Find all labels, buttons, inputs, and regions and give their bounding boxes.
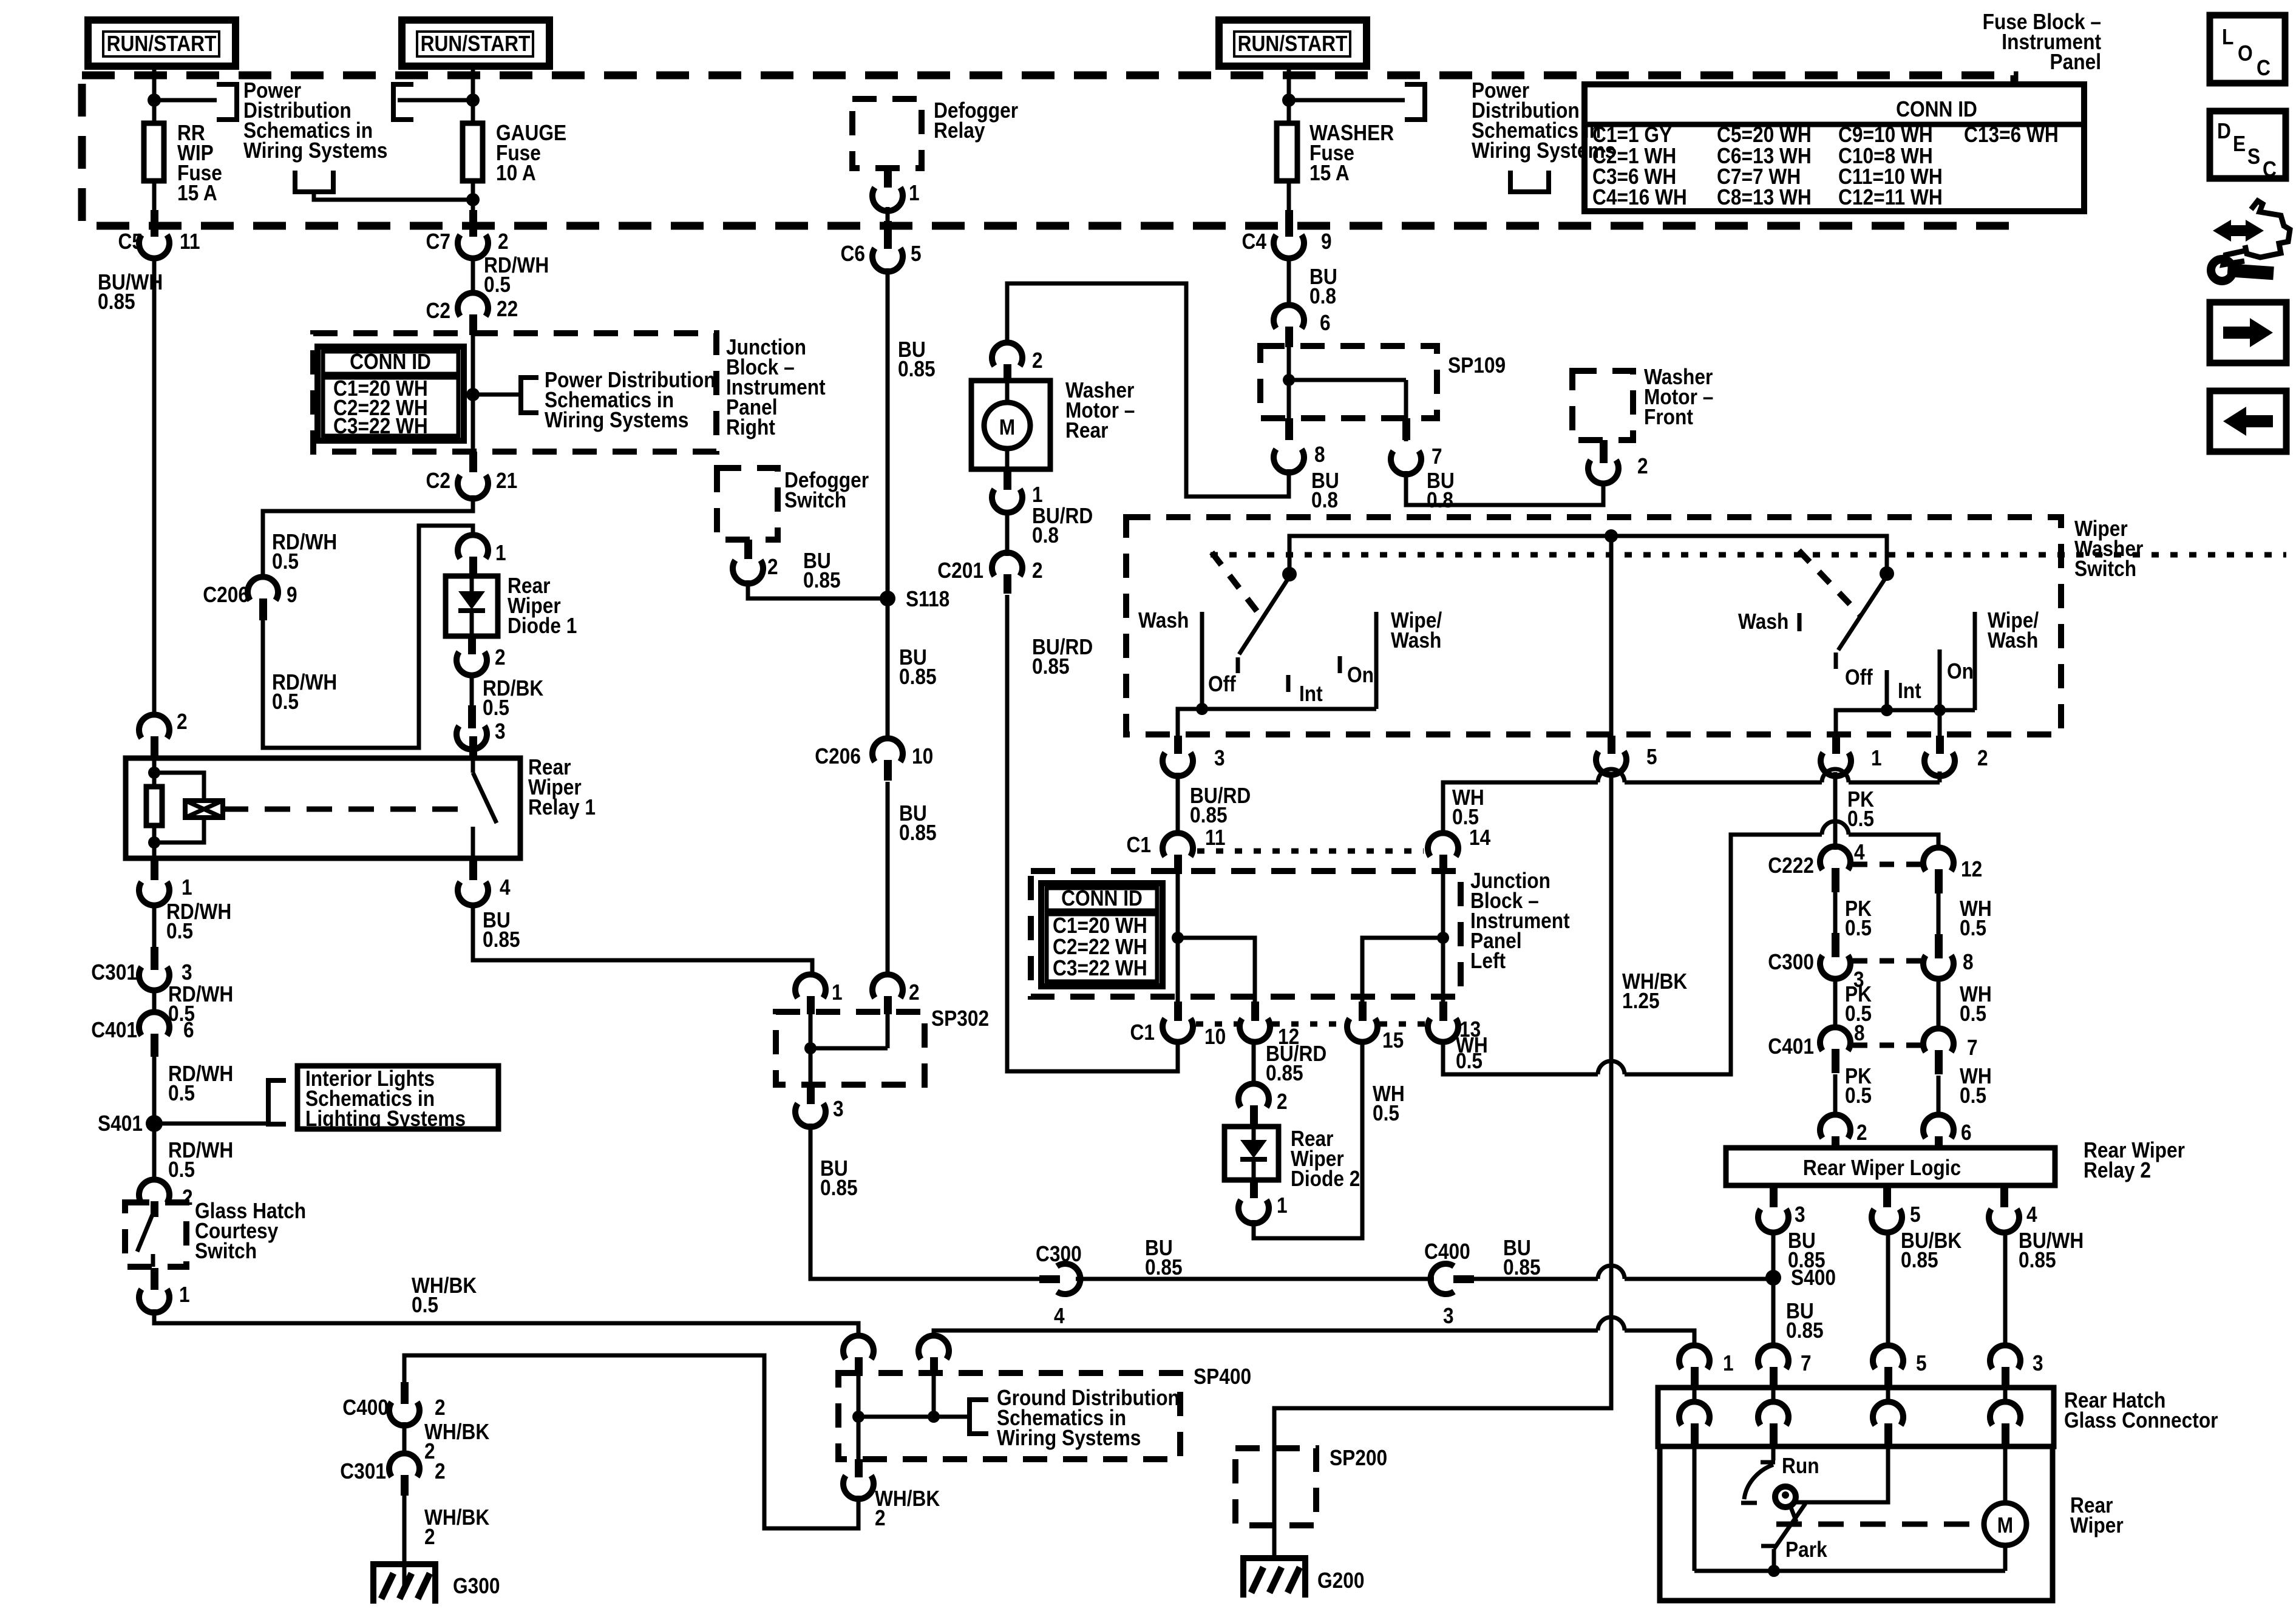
label PK 0.5 c (1845, 1063, 1872, 1108)
RUN/START box 1 (88, 20, 236, 66)
svg-text:RUN/START: RUN/START (107, 31, 217, 56)
wire WH/BK C301-2 to G300 (402, 1496, 407, 1585)
connector C222 pin 12 (1923, 847, 1982, 893)
left switch bottom wire (1178, 709, 1376, 736)
svg-text:2: 2 (1637, 453, 1648, 478)
wire BU SP302-3 to C300-4 (810, 1124, 1039, 1279)
wire to pointer bracket 1 (154, 98, 217, 103)
svg-text:C4: C4 (1242, 229, 1267, 254)
svg-text:4: 4 (1054, 1303, 1065, 1328)
wire BU/BK relay2 pin5 to glass pin 5 (1886, 1230, 1890, 1347)
label BU 0.85 below S400 (1786, 1298, 1824, 1343)
svg-text:C201: C201 (937, 558, 983, 583)
connector C1 pin 14 (1428, 833, 1458, 874)
svg-text:1: 1 (182, 875, 192, 900)
connector C401 pin 7 (1923, 1028, 1978, 1074)
svg-text:0.8: 0.8 (1032, 523, 1059, 547)
svg-text:0.5: 0.5 (1847, 806, 1874, 831)
label BU/RD 0.85 C201 (1032, 634, 1093, 679)
svg-text:Relay: Relay (934, 118, 985, 143)
svg-text:Wiring Systems: Wiring Systems (545, 407, 688, 432)
connector diode2 pin 2 (1238, 1083, 1288, 1125)
label BU 0.8 pin7 (1427, 468, 1455, 512)
svg-text:2: 2 (1032, 558, 1043, 583)
connector relay1 pin 1 (139, 858, 192, 906)
svg-text:0.8: 0.8 (1427, 487, 1453, 512)
connector washer motor front pin 2 (1588, 440, 1648, 484)
motor mechanical link dashed (1776, 1522, 1980, 1527)
svg-text:7: 7 (1801, 1351, 1812, 1375)
ground G200 (1240, 1555, 1365, 1598)
wire wiper pin7 to run switch (1771, 1446, 1776, 1460)
svg-text:5: 5 (1646, 744, 1657, 769)
svg-text:6: 6 (183, 1017, 194, 1042)
svg-text:0.85: 0.85 (1032, 654, 1070, 679)
connector C401 pin 6 (91, 1012, 194, 1057)
svg-text:C222: C222 (1768, 853, 1814, 878)
label BU 0.85 mid (1145, 1235, 1183, 1280)
connector C401 pin 8 (1768, 1020, 1864, 1073)
pointer bracket ground distribution (970, 1400, 988, 1434)
wire pin5 to pivot (1796, 1446, 1888, 1502)
svg-text:C400: C400 (342, 1395, 389, 1420)
svg-text:SP109: SP109 (1448, 353, 1506, 378)
svg-text:8: 8 (1854, 1020, 1865, 1045)
svg-text:1: 1 (495, 540, 506, 565)
connector C301 pin 2 (340, 1453, 445, 1496)
switch feed wire top (1289, 536, 1887, 574)
courtesy switch blade (137, 1204, 153, 1267)
svg-text:Relay 2: Relay 2 (2084, 1158, 2151, 1182)
label WH 0.5 pin 15 (1373, 1081, 1405, 1125)
connector SP400 output (843, 1459, 874, 1499)
label PK 0.5 switch out (1847, 787, 1874, 831)
wire RD/WH C7 to C2-22 (471, 256, 475, 296)
svg-text:2: 2 (767, 554, 778, 579)
connector relay1 pin 3 (457, 705, 506, 758)
connector SP109 pin 6 (1274, 305, 1331, 347)
wire SP200 through (1272, 1448, 1277, 1561)
svg-text:2: 2 (177, 709, 188, 734)
RUN/START box 3 (1219, 20, 1367, 66)
svg-text:Diode 2: Diode 2 (1291, 1166, 1360, 1191)
label RD/WH 0.5 relay pin1 (166, 899, 231, 943)
svg-text:8: 8 (1314, 442, 1325, 467)
svg-text:8: 8 (1963, 949, 1974, 974)
svg-text:RUN/START: RUN/START (1238, 31, 1348, 56)
svg-text:0.85: 0.85 (803, 568, 841, 592)
svg-text:22: 22 (497, 296, 518, 321)
wire bracket to gauge fuse column (314, 192, 473, 200)
svg-text:1: 1 (832, 980, 843, 1005)
svg-text:2: 2 (1032, 348, 1043, 373)
wire BU/RD switch pin3 to C1 pin 11 (1176, 773, 1180, 835)
left switch On tick (1338, 656, 1342, 673)
svg-text:0.85: 0.85 (1786, 1318, 1824, 1343)
label Junction Block Instrument Panel Left (1470, 868, 1570, 973)
label RD/WH 0.5 mid (168, 981, 233, 1026)
label WH 0.5 a (1960, 896, 1992, 940)
svg-text:C4=16 WH: C4=16 WH (1592, 185, 1687, 209)
svg-text:Right: Right (726, 415, 775, 439)
connector diode1 pin 1 (458, 535, 506, 576)
svg-text:3: 3 (1443, 1303, 1454, 1328)
svg-text:C300: C300 (1768, 949, 1814, 974)
label Wiper Washer Switch (2074, 516, 2143, 581)
label BU 0.85 to SP302 (899, 801, 937, 845)
pointer bracket 3 (1405, 84, 1425, 120)
washer motor rear (971, 381, 1050, 469)
wire relay pin1 to C6 (886, 207, 890, 225)
svg-text:On: On (1947, 659, 1974, 683)
label BU/WH 0.85 (2019, 1228, 2084, 1272)
pointer bracket interior lights (268, 1080, 286, 1124)
svg-text:7: 7 (1967, 1035, 1978, 1060)
wire RD/WH C2-21 jog to C206-9 (263, 495, 473, 578)
wire park to bottom (1772, 1549, 1776, 1571)
wire WH/BK SP400 out jog to C400-2 (404, 1355, 858, 1528)
svg-text:11: 11 (1205, 825, 1226, 850)
connector SP302 pin 1 (795, 974, 843, 1014)
svg-text:SP400: SP400 (1194, 1364, 1251, 1389)
connector C5 pin 11 (118, 210, 200, 259)
splice S118 (880, 586, 949, 611)
wire WH 0.5 jog to C1 pin 14 (1443, 782, 1940, 835)
wire RD/WH C401 to S401 (152, 1057, 157, 1182)
icon car lower outline (2223, 250, 2248, 265)
svg-text:3: 3 (495, 719, 506, 744)
connector C6 pin 5 (841, 221, 922, 272)
svg-text:15 A: 15 A (177, 180, 217, 205)
svg-text:0.85: 0.85 (820, 1175, 858, 1200)
wire WH C401-7 to relay2 pin 6 (1937, 1076, 1941, 1117)
right switch On tick (1938, 649, 1942, 710)
connector SP400 left input (843, 1335, 874, 1375)
svg-text:C300: C300 (1036, 1241, 1082, 1266)
wire BU C206-10 to SP302 pin 2 (886, 782, 890, 977)
label RD/BK 0.5 (483, 676, 543, 720)
dashed pair line C300 (1853, 958, 1921, 964)
park contact tick (1761, 1544, 1776, 1548)
wire WH diode2 pin1 to C1 pin 15 (1254, 1039, 1362, 1238)
run blade curve (1744, 1465, 1773, 1499)
fuse block dashed box (82, 75, 2014, 226)
label BU 0.85 relay out (483, 907, 520, 952)
svg-text:Park: Park (1785, 1537, 1828, 1562)
block left internal wires pin 14 side (1362, 874, 1449, 1002)
splice SP109 dashed box (1260, 346, 1437, 418)
wire C1 pin12 to diode2 (1252, 1039, 1256, 1086)
wire RD/WH relay1 pin1 down (152, 903, 157, 947)
svg-text:4: 4 (1854, 839, 1865, 864)
connector glass pin 7 (1758, 1345, 1812, 1388)
connector C301 pin 3 (91, 947, 192, 991)
wire wiper pin1 inside (1693, 1446, 1697, 1571)
glass hatch courtesy switch box (125, 1202, 186, 1267)
wire to pointer bracket 2 (398, 98, 473, 103)
label Rear Hatch Glass Connector (2064, 1388, 2218, 1432)
label WH 0.5 to pin 14 (1452, 785, 1484, 829)
label PK 0.5 b (1845, 981, 1872, 1026)
svg-text:2: 2 (1856, 1120, 1867, 1145)
relay1 coil branch (154, 773, 223, 842)
wire WH C1 pin13 jog to C222 pin 12 (1443, 835, 1938, 1074)
icon LOC box (2210, 15, 2285, 83)
wire RD/WH C301 to C401 (152, 988, 157, 1015)
svg-text:C401: C401 (1768, 1034, 1814, 1059)
connector wiper switch pin 1 (1821, 736, 1882, 776)
svg-text:S118: S118 (906, 586, 949, 611)
defogger relay pin 1 connector (872, 168, 920, 211)
junction node gauge fuse bottom (466, 193, 480, 206)
label RR WIP Fuse 15 A (177, 120, 222, 205)
connector C4 pin 9 (1242, 210, 1332, 259)
relay1 resistor branch (146, 758, 162, 858)
wire BU/WH relay2 pin4 to glass pin 3 (2003, 1230, 2008, 1347)
label WH/BK 1.25 (1622, 969, 1687, 1013)
hop WH/BK over ground column (1598, 1317, 1625, 1331)
wire BU SP109-8 to washer motor rear pin 2 (1007, 283, 1289, 497)
svg-text:C: C (2257, 55, 2271, 80)
svg-text:Panel: Panel (2050, 49, 2102, 74)
svg-text:C1: C1 (1130, 1020, 1155, 1045)
wire WH/BK 1.25 main vertical (1274, 772, 1611, 1448)
svg-text:1: 1 (1277, 1193, 1288, 1218)
svg-text:0.5: 0.5 (1960, 915, 1986, 940)
connector relay2 pin 5 (1872, 1185, 1921, 1233)
svg-text:2: 2 (424, 1439, 435, 1463)
svg-text:2: 2 (182, 1185, 193, 1210)
svg-text:2: 2 (424, 1524, 435, 1549)
svg-text:Wiring Systems: Wiring Systems (243, 138, 387, 163)
label BU 0.85 below S118 (899, 645, 937, 689)
label RD/WH 0.5 above S401 (168, 1061, 233, 1105)
wire RUN/START3 to C4 (1287, 66, 1291, 214)
label BU/BK 0.85 (1901, 1228, 1961, 1272)
svg-text:10 A: 10 A (496, 160, 536, 185)
label RD/WH 0.5 top (484, 253, 549, 297)
left switch pivot (1282, 567, 1297, 581)
connector glass pin 3 (1990, 1345, 2043, 1388)
svg-text:C301: C301 (340, 1459, 386, 1483)
svg-text:C3=22 WH: C3=22 WH (333, 413, 428, 438)
connector C206 pin 10 (815, 738, 933, 781)
label WH/BK 2 a (424, 1419, 489, 1463)
glass connector inner pin 3 (1990, 1388, 2020, 1446)
label Rear Wiper Relay 1 (528, 754, 596, 819)
svg-text:SP200: SP200 (1330, 1445, 1387, 1470)
wire BU/RD C201 to junction block pin 10 (1007, 595, 1178, 1071)
svg-text:0.5: 0.5 (412, 1292, 438, 1317)
junction node Int right (1881, 704, 1893, 716)
svg-text:C6: C6 (841, 241, 866, 266)
svg-text:Int: Int (1898, 678, 1921, 703)
fuse GAUGE (463, 123, 483, 181)
wire BU C4 to connector 6 (1287, 256, 1291, 308)
connector defogger switch pin 2 (733, 540, 778, 584)
wire WH/BK SP400 to glass pin 1 with hop (934, 1331, 1694, 1347)
junction block IP right dashed box (313, 333, 716, 452)
left switch Off tick (1236, 657, 1240, 673)
connector C2 pin 21 (426, 452, 518, 499)
left switch blade (1239, 577, 1289, 654)
svg-text:2: 2 (495, 645, 506, 670)
pointer bracket 1 (217, 84, 237, 120)
label Rear Wiper Diode 1 (508, 573, 577, 638)
svg-text:0.85: 0.85 (2019, 1247, 2056, 1272)
hop BU over ground column (1598, 1266, 1625, 1279)
pivot teardrop (1775, 1486, 1796, 1522)
svg-text:2: 2 (498, 229, 509, 254)
label WH 0.5 c (1960, 1063, 1992, 1108)
run contact tick (1761, 1460, 1775, 1465)
wire BU C300-4 to C400-3 (1076, 1277, 1434, 1281)
connector glass pin 5 (1873, 1345, 1927, 1388)
svg-text:C206: C206 (815, 744, 861, 768)
svg-text:0.85: 0.85 (1145, 1255, 1183, 1280)
svg-text:G200: G200 (1317, 1568, 1365, 1593)
right switch Wipe/Wash post (1973, 612, 1977, 710)
rear wiper motor box (1660, 1446, 2053, 1601)
right switch Int tick (1885, 670, 1889, 710)
label BU/RD 0.85 pin3 (1190, 783, 1251, 827)
label BU 0.8 pin8 (1311, 468, 1339, 512)
svg-text:0.85: 0.85 (899, 820, 937, 845)
svg-text:0.5: 0.5 (168, 1157, 195, 1182)
label Wipe/Wash left (1391, 608, 1442, 653)
svg-text:Wiper: Wiper (2070, 1513, 2124, 1537)
svg-text:CONN ID: CONN ID (350, 349, 431, 374)
connector relay2 pin 2 (1820, 1114, 1867, 1150)
svg-text:Wiring Systems: Wiring Systems (1472, 138, 1615, 163)
svg-text:12: 12 (1961, 856, 1982, 881)
wire to pointer bracket 3 (1289, 98, 1405, 103)
svg-text:M: M (1997, 1513, 2013, 1537)
svg-text:0.5: 0.5 (168, 1080, 195, 1105)
svg-text:3: 3 (2033, 1351, 2043, 1375)
left switch Int tick (1286, 675, 1291, 692)
mechanical link dotted line (1211, 552, 2286, 558)
svg-text:1: 1 (1723, 1351, 1734, 1375)
connector SP109 pin 7 (1391, 418, 1442, 475)
splice SP302 dashed box (776, 1012, 925, 1085)
svg-text:1: 1 (909, 180, 920, 205)
label BU/RD 0.8 (1032, 503, 1093, 547)
run lower tick (1741, 1501, 1757, 1505)
svg-text:0.85: 0.85 (1266, 1060, 1303, 1085)
right switch dashed diagonal (1799, 551, 1860, 615)
label BU 0.85 defogger (803, 548, 841, 592)
svg-text:0.85: 0.85 (1901, 1247, 1938, 1272)
dotted connector line C1 top row (1197, 849, 1424, 854)
svg-text:0.85: 0.85 (98, 289, 135, 314)
glass connector inner pin 1 (1679, 1388, 1710, 1446)
svg-text:Lighting Systems: Lighting Systems (305, 1106, 466, 1131)
wiper washer switch dashed box (1126, 517, 2061, 734)
hop C222-12 wire over PK column (1822, 821, 1849, 835)
svg-text:SP302: SP302 (931, 1006, 989, 1031)
connector C300 pin 4 inline (1036, 1241, 1082, 1328)
svg-text:C8=13 WH: C8=13 WH (1717, 185, 1812, 209)
svg-text:Wash: Wash (1391, 628, 1441, 653)
connector diode2 pin 1 (1238, 1180, 1288, 1224)
label WH 0.5 b (1960, 981, 1992, 1026)
label BU 0.85 pin3 (1788, 1228, 1826, 1272)
icon DESC box (2210, 111, 2286, 181)
connector C1 pin 10 (1130, 1002, 1226, 1049)
svg-text:5: 5 (911, 241, 922, 266)
svg-text:2: 2 (875, 1505, 886, 1530)
svg-text:0.85: 0.85 (899, 664, 937, 689)
svg-text:4: 4 (500, 875, 511, 900)
svg-text:1: 1 (1871, 745, 1882, 770)
hop over pin5 column (1598, 769, 1625, 782)
svg-text:C1: C1 (1127, 832, 1152, 857)
svg-text:C12=11 WH: C12=11 WH (1838, 185, 1943, 209)
svg-text:Off: Off (1845, 665, 1873, 690)
svg-text:0.85: 0.85 (1190, 802, 1228, 827)
block left internal wires pin 11 side (1172, 874, 1255, 1002)
label BU/RD 0.85 pin 12 (1266, 1041, 1326, 1085)
RUN/START box 2 (402, 20, 549, 66)
wire WH/BK C400-2 to C301-2 (402, 1422, 407, 1456)
svg-text:Front: Front (1644, 404, 1693, 429)
svg-text:0.8: 0.8 (1309, 283, 1336, 308)
wire PK C401-8 to relay2 pin 2 (1833, 1074, 1838, 1117)
svg-text:C13=6 WH: C13=6 WH (1964, 122, 2059, 147)
junction node in block right (466, 388, 480, 401)
rear wiper diode 2 (1224, 1127, 1279, 1180)
svg-text:3: 3 (1795, 1202, 1805, 1227)
right switch Wash tick (1798, 613, 1802, 631)
svg-text:10: 10 (1204, 1024, 1226, 1049)
svg-text:0.5: 0.5 (1845, 1083, 1872, 1108)
label Defogger Relay (934, 98, 1018, 143)
rear hatch glass connector box (1658, 1388, 2054, 1446)
svg-text:0.5: 0.5 (1456, 1048, 1483, 1073)
label Fuse Block Instrument Panel (1983, 9, 2101, 74)
junction node park (1768, 1565, 1780, 1577)
svg-text:Switch: Switch (2074, 556, 2136, 581)
rear wiper logic box (1726, 1148, 2055, 1185)
svg-text:9: 9 (287, 582, 297, 607)
svg-text:Rear Wiper Logic: Rear Wiper Logic (1803, 1155, 1961, 1180)
svg-text:9: 9 (1321, 229, 1332, 254)
svg-text:0.5: 0.5 (1845, 915, 1872, 940)
label RD/WH 0.5 below S401 (168, 1137, 233, 1182)
svg-text:CONN ID: CONN ID (1061, 886, 1143, 910)
svg-text:S400: S400 (1791, 1265, 1836, 1290)
svg-text:Left: Left (1470, 948, 1506, 973)
icon double arrow (2213, 220, 2264, 242)
svg-text:0.5: 0.5 (166, 918, 193, 943)
connector C201 pin 2 (937, 552, 1042, 594)
svg-text:S401: S401 (98, 1111, 143, 1136)
rear wiper diode 1 (446, 576, 498, 636)
glass connector inner pin 7 (1758, 1388, 1788, 1446)
junction node on RR WIP feed (148, 93, 161, 107)
defogger relay dashed box (852, 99, 922, 168)
svg-text:C5: C5 (118, 229, 143, 254)
pointer bracket 2 (393, 84, 413, 120)
connector SP302 pin 2 (872, 974, 920, 1014)
wire WH C222-12 to C300-8 (1937, 893, 1941, 934)
fuse WASHER (1277, 123, 1297, 181)
wire S401 to interior lights bracket (154, 1122, 268, 1126)
svg-text:0.85: 0.85 (1503, 1255, 1541, 1280)
svg-text:10: 10 (912, 744, 933, 768)
label Washer Motor Front (1644, 364, 1713, 429)
